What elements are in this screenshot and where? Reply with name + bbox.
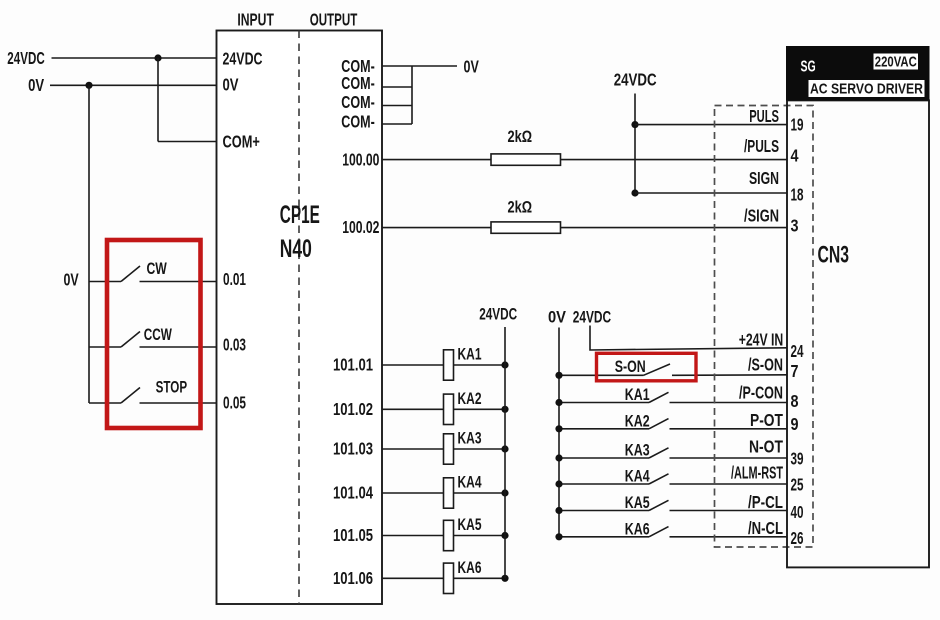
svg-text:39: 39: [791, 448, 804, 468]
PLC input/output divider (dashed): [298, 31, 300, 605]
svg-text:24VDC: 24VDC: [7, 48, 45, 68]
svg-text:0V: 0V: [464, 57, 480, 77]
svg-text:KA3: KA3: [458, 429, 482, 448]
wire PULS to pin 19: [635, 124, 787, 126]
wire COM- row3: [382, 105, 412, 107]
red highlight box (S-ON): [597, 353, 697, 381]
relay coil KA2: [444, 394, 454, 424]
svg-text:/P-CON: /P-CON: [739, 383, 783, 403]
svg-text:COM-: COM-: [341, 73, 375, 93]
wire 24VDC pulse drop: [634, 94, 636, 194]
switch KA3 row: [559, 448, 787, 458]
svg-text:CCW: CCW: [144, 325, 173, 344]
svg-text:INPUT: INPUT: [237, 10, 274, 30]
red highlight box (input switches): [107, 240, 201, 428]
switch KA2 row: [559, 419, 787, 429]
wire SIGN to pin 18: [635, 192, 787, 194]
svg-text:2kΩ: 2kΩ: [508, 127, 533, 146]
svg-text:CP1E: CP1E: [280, 201, 320, 229]
svg-text:CN3: CN3: [818, 242, 850, 269]
svg-text:/N-CL: /N-CL: [748, 518, 783, 538]
junction dot KA1 coil: [501, 361, 508, 368]
svg-text:N40: N40: [280, 235, 312, 263]
svg-text:7: 7: [791, 361, 799, 381]
wire 101.02 to coil KA2: [382, 408, 444, 410]
CN3 dashed connector box: [715, 106, 814, 548]
svg-text:0.05: 0.05: [223, 392, 246, 412]
wire 101.01 to coil KA1: [382, 364, 444, 366]
wire to COM+ pin: [158, 141, 217, 143]
svg-text:STOP: STOP: [156, 378, 188, 397]
svg-text:220VAC: 220VAC: [875, 53, 917, 70]
relay coil KA5: [444, 520, 454, 550]
svg-text:0V: 0V: [64, 270, 79, 290]
svg-text:0V: 0V: [548, 308, 567, 327]
svg-text:25: 25: [791, 474, 804, 494]
wire +24V IN feed: [590, 326, 787, 351]
svg-text:KA5: KA5: [625, 493, 650, 512]
svg-text:+24V IN: +24V IN: [739, 330, 784, 350]
switch CCW: [89, 332, 217, 348]
svg-text:101.03: 101.03: [333, 439, 373, 459]
label AC SERVO DRIVER chip: [809, 80, 925, 97]
junction dot PULS: [631, 121, 638, 128]
junction dot SIGN: [631, 189, 638, 196]
relay coil KA1: [444, 350, 454, 380]
svg-text:4: 4: [791, 146, 799, 166]
svg-text:KA3: KA3: [625, 441, 650, 460]
svg-text:101.04: 101.04: [333, 483, 373, 503]
svg-text:SIGN: SIGN: [749, 168, 779, 188]
wire coil KA4 to 24VDC bus: [454, 492, 506, 494]
junction dot KA4 coil: [501, 489, 508, 496]
junction dot KA6: [555, 533, 562, 540]
svg-text:S-ON: S-ON: [615, 357, 646, 376]
junction dot KA1: [555, 399, 562, 406]
svg-text:19: 19: [791, 114, 804, 134]
AC servo driver box: [787, 100, 929, 567]
relay coil KA6: [444, 563, 454, 593]
svg-text:2kΩ: 2kΩ: [508, 198, 533, 217]
svg-text:8: 8: [791, 391, 799, 411]
switch S-ON row: [559, 364, 787, 375]
svg-text:/ALM-RST: /ALM-RST: [731, 462, 783, 482]
junction dot KA6 coil: [501, 575, 508, 582]
junction dot KA5 coil: [501, 532, 508, 539]
wire 0V to PLC: [50, 84, 217, 86]
junction dot KA3: [555, 454, 562, 461]
svg-text:COM-: COM-: [341, 92, 375, 112]
svg-text:SG: SG: [801, 59, 816, 76]
svg-text:KA4: KA4: [625, 467, 650, 486]
svg-text:100.02: 100.02: [342, 217, 379, 237]
wire coil KA2 to 24VDC bus: [454, 408, 506, 410]
switch STOP: [89, 388, 217, 404]
svg-text:P-OT: P-OT: [750, 410, 783, 430]
svg-text:18: 18: [791, 184, 804, 204]
wire COM- row4: [382, 123, 412, 125]
junction dot KA5: [555, 507, 562, 514]
wire 24VDC down to COM+: [157, 58, 159, 142]
svg-text:101.06: 101.06: [333, 568, 373, 588]
svg-text:KA2: KA2: [458, 389, 482, 408]
junction dot KA2 coil: [501, 406, 508, 413]
wire COM- bus vertical: [411, 66, 413, 124]
wire COM- row2: [382, 86, 412, 88]
svg-text:24VDC: 24VDC: [614, 70, 657, 90]
svg-text:COM-: COM-: [341, 112, 375, 132]
junction dot KA3 coil: [501, 445, 508, 452]
svg-text:9: 9: [791, 414, 799, 434]
junction dot KA4: [555, 480, 562, 487]
wire 0V servo bus: [558, 328, 560, 537]
svg-text:KA6: KA6: [458, 558, 482, 577]
servo driver black header: [786, 46, 930, 100]
svg-text:24VDC: 24VDC: [223, 48, 263, 68]
svg-text:0V: 0V: [223, 74, 239, 94]
svg-text:KA6: KA6: [625, 519, 650, 538]
svg-text:101.05: 101.05: [333, 525, 373, 545]
label 220VAC chip: [874, 54, 919, 70]
wire 101.04 to coil KA4: [382, 492, 444, 494]
svg-text:26: 26: [791, 528, 804, 548]
svg-text:100.00: 100.00: [342, 150, 379, 170]
wire resistor R2 to /SIGN pin 3: [561, 227, 788, 229]
junction dot 0V: [85, 82, 92, 89]
wire 0V bus down: [88, 85, 90, 403]
svg-text:PULS: PULS: [749, 106, 779, 126]
wire 24VDC relay bus: [504, 327, 506, 578]
wire 100.00 to resistor: [382, 159, 491, 161]
wire coil KA1 to 24VDC bus: [454, 364, 506, 366]
junction dot S-ON: [555, 372, 562, 379]
wire 24VDC to PLC: [52, 57, 217, 59]
svg-text:/PULS: /PULS: [744, 136, 779, 156]
svg-text:AC SERVO DRIVER: AC SERVO DRIVER: [810, 81, 923, 98]
svg-text:101.02: 101.02: [333, 399, 373, 419]
svg-text:/SIGN: /SIGN: [744, 205, 779, 225]
svg-text:KA1: KA1: [458, 345, 482, 364]
wire coil KA5 to 24VDC bus: [454, 535, 506, 537]
wire coil KA6 to 24VDC bus: [454, 577, 506, 579]
wire 101.03 to coil KA3: [382, 448, 444, 450]
resistor R2 2kOhm: [491, 222, 561, 233]
wire coil KA3 to 24VDC bus: [454, 448, 506, 450]
relay coil KA4: [444, 478, 454, 508]
svg-text:KA2: KA2: [625, 411, 650, 430]
svg-text:24VDC: 24VDC: [479, 305, 517, 324]
svg-text:KA4: KA4: [458, 473, 482, 492]
svg-text:COM+: COM+: [223, 131, 260, 151]
switch KA6 row: [559, 527, 787, 537]
wire 101.05 to coil KA5: [382, 535, 444, 537]
svg-text:24VDC: 24VDC: [573, 308, 611, 327]
svg-text:24: 24: [791, 341, 804, 361]
svg-text:OUTPUT: OUTPUT: [310, 10, 358, 30]
svg-text:0.03: 0.03: [223, 334, 246, 354]
svg-text:KA5: KA5: [458, 515, 482, 534]
svg-text:3: 3: [791, 216, 799, 236]
switch CW: [89, 266, 217, 282]
junction dot KA2: [555, 425, 562, 432]
wire resistor R1 to /PULS pin 4: [561, 159, 788, 161]
svg-text:/P-CL: /P-CL: [748, 492, 783, 512]
svg-text:40: 40: [791, 502, 804, 522]
switch KA5 row: [559, 500, 787, 510]
svg-text:N-OT: N-OT: [749, 436, 783, 456]
relay coil KA3: [444, 434, 454, 464]
junction dot 24VDC: [154, 54, 161, 61]
switch KA1 row: [559, 392, 787, 402]
switch KA4 row: [559, 474, 787, 484]
wire 101.06 to coil KA6: [382, 577, 444, 579]
wire COM- row1 to 0V: [382, 65, 457, 67]
svg-text:0V: 0V: [28, 75, 44, 95]
PLC CP1E N40 box: [217, 31, 383, 605]
svg-text:/S-ON: /S-ON: [748, 355, 783, 375]
wire 100.02 to resistor: [382, 227, 491, 229]
svg-text:101.01: 101.01: [333, 355, 373, 375]
svg-text:KA1: KA1: [625, 385, 650, 404]
svg-text:CW: CW: [147, 259, 168, 278]
svg-text:0.01: 0.01: [223, 269, 246, 289]
resistor R1 2kOhm: [491, 154, 561, 165]
